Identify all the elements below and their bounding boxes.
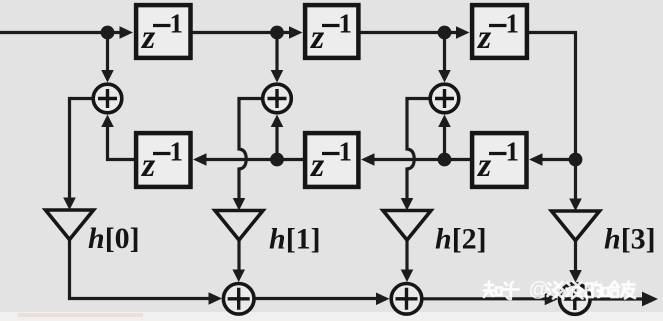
arrow into h3 top <box>569 199 582 212</box>
arrow into A3 bottom (from J4) <box>438 115 451 128</box>
node J2 <box>270 26 284 40</box>
arrow into A6 top <box>569 270 582 283</box>
wire: J2 down to adder A2 <box>275 39 278 71</box>
svg-text:1: 1 <box>506 9 520 39</box>
adder A1 <box>93 84 122 113</box>
plus in A2 <box>268 89 287 108</box>
arrow into A1 bottom (from B1) <box>101 115 114 128</box>
wire: B3 output to J4 and on to B2 input <box>372 158 470 161</box>
node J3 <box>438 26 452 40</box>
wire: T1 to T2 <box>192 31 291 34</box>
svg-text:1: 1 <box>170 9 184 39</box>
adder A3 <box>430 84 459 113</box>
arrow into T1 <box>120 26 134 39</box>
delay box B1 <box>136 133 190 187</box>
wire: B2 output to J5 and on to B1 input <box>205 158 304 161</box>
arrow into A4 top <box>232 270 245 283</box>
wire: J1 down to adder A1 <box>106 39 109 71</box>
adder A2 <box>263 84 292 113</box>
wire: h0 output down and right to A4 <box>70 240 211 299</box>
wire: B1 output left then up to A1 bottom <box>108 127 135 160</box>
wire: T3 output to right column down to h3 <box>528 33 576 201</box>
arrow into A1 top <box>101 70 114 83</box>
node J1 <box>101 26 115 40</box>
svg-text:1: 1 <box>170 137 184 167</box>
delay box T2 <box>305 5 358 58</box>
arrow into A5 top <box>401 270 414 283</box>
label z^-1 in B3 <box>477 137 519 185</box>
char 皮 <box>621 282 635 299</box>
arrow into A3 top <box>438 70 451 83</box>
bottom page strip <box>0 312 663 321</box>
svg-text:h[3]: h[3] <box>604 223 656 256</box>
char 哈 <box>603 288 609 296</box>
node J6 <box>569 153 583 167</box>
wire: h1 output down to A4 <box>237 240 240 272</box>
svg-text:1: 1 <box>339 9 353 39</box>
svg-text:@: @ <box>529 279 549 301</box>
arrow into B3 right <box>529 153 543 166</box>
arrow into T3 <box>456 26 470 39</box>
arrow into T2 <box>289 26 303 39</box>
svg-text:h[0]: h[0] <box>88 222 140 255</box>
adder A5 <box>391 284 422 315</box>
delay box B3 <box>472 133 526 187</box>
char 的 <box>586 284 593 298</box>
arrow into A2 top <box>271 70 284 83</box>
plus in A6 <box>564 288 586 310</box>
label z^-1 in B2 <box>310 137 352 185</box>
wire: J4 up to A3 bottom <box>443 127 446 160</box>
svg-text:1: 1 <box>339 137 353 167</box>
svg-text:h[1]: h[1] <box>269 223 321 256</box>
char 乎 <box>504 282 519 299</box>
svg-text:1: 1 <box>506 137 520 167</box>
wire: A3 output left and down with hop to h2 <box>407 99 429 200</box>
wire: T2 to T3 <box>360 31 458 34</box>
multiplier triangle h1 <box>215 211 263 241</box>
plus in A4 <box>228 288 250 310</box>
char 知 <box>484 282 494 298</box>
wire: A5 output to A6 <box>423 297 547 300</box>
wire: input line <box>0 31 121 34</box>
char 淡 (1) <box>548 282 564 299</box>
wire: A4 output to A5 <box>255 297 379 300</box>
wire: J5 up to A2 bottom <box>275 127 278 160</box>
delay box T1 <box>136 5 190 58</box>
multiplier triangle h2 <box>383 211 431 241</box>
bottom strip pink tint <box>18 313 143 317</box>
arrow into B1 right <box>193 153 207 166</box>
node J5 <box>270 153 284 167</box>
label z^-1 in T2 <box>310 9 352 57</box>
delay box B2 <box>305 133 358 187</box>
label z^-1 in T1 <box>141 9 183 57</box>
arrow into A5 left <box>376 293 390 306</box>
wire: A6 output to final arrow <box>592 297 645 300</box>
arrow into B2 right <box>361 153 375 166</box>
wire: h3 output down to A6 <box>574 240 577 272</box>
node J4 <box>438 153 452 167</box>
wire: right column dot to B3 input <box>541 158 576 161</box>
wire: A2 output left and down with hop to h1 <box>239 99 261 200</box>
arrow into h0 top <box>63 198 76 211</box>
plus in A1 <box>98 89 117 108</box>
wire: A1 output left and down to h0 <box>70 99 92 200</box>
label z^-1 in T3 <box>477 9 519 57</box>
multiplier triangle h3 <box>552 211 600 241</box>
wire: h2 output down to A5 <box>405 240 408 272</box>
arrow into A6 left <box>545 293 559 306</box>
arrow into A4 left <box>209 292 223 305</box>
char 淡 (2) <box>567 282 583 299</box>
plus in A3 <box>435 89 454 108</box>
arrow into h1 top <box>233 198 246 211</box>
adder A6 <box>560 284 591 315</box>
arrow into h2 top <box>401 198 414 211</box>
delay box T3 <box>472 5 527 58</box>
label z^-1 in B1 <box>141 137 183 185</box>
watermark 知乎 @淡淡的哈皮 <box>484 279 635 301</box>
arrow into A2 bottom (from J5) <box>271 115 284 128</box>
adder A4 <box>223 284 254 315</box>
plus in A5 <box>396 288 418 310</box>
wire: J3 down to adder A3 <box>443 39 446 71</box>
final output arrow <box>642 292 658 307</box>
multiplier triangle h0 <box>46 210 94 240</box>
svg-text:h[2]: h[2] <box>435 223 487 256</box>
